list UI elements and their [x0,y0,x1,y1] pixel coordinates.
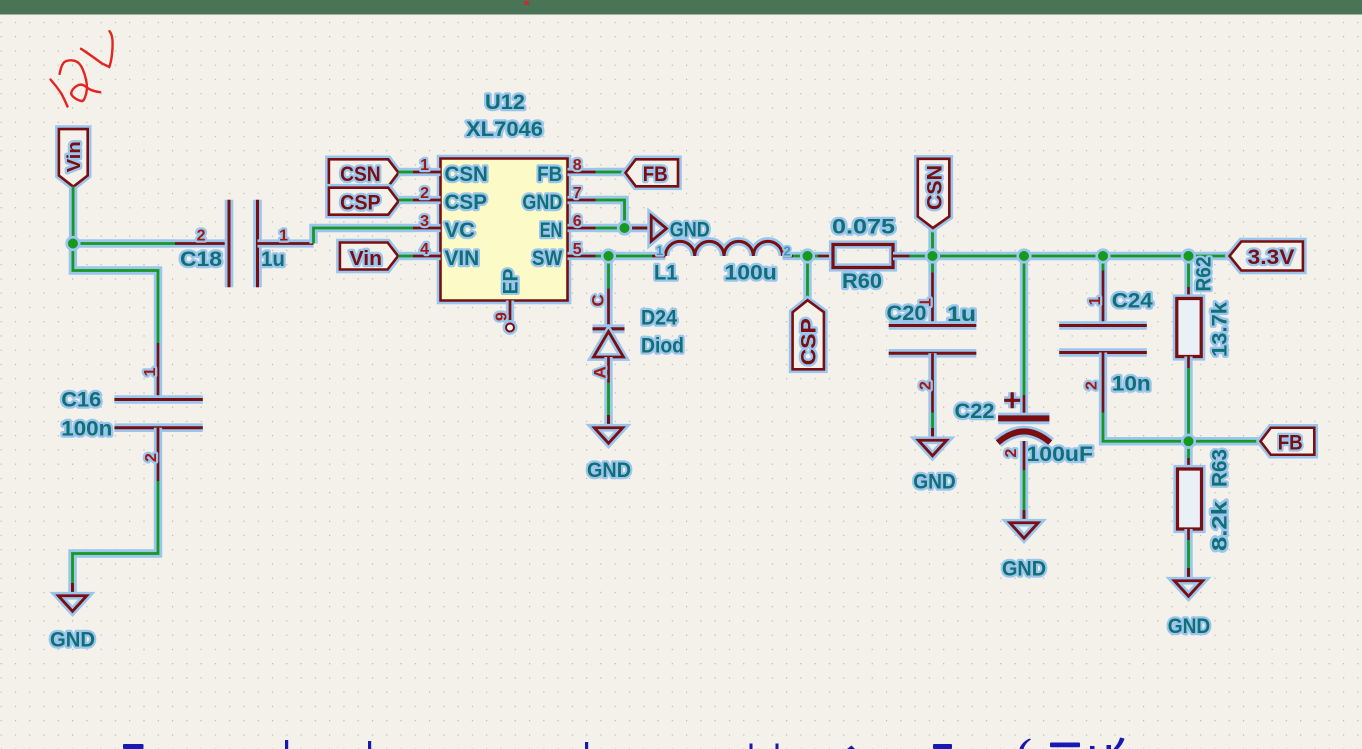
svg-text:CSP: CSP [340,190,381,214]
svg-text:4: 4 [420,241,429,258]
svg-text:FB: FB [1278,431,1303,455]
svg-text:GND: GND [913,470,956,494]
svg-text:FB: FB [537,162,562,186]
svg-text:SW: SW [532,246,563,270]
svg-text:U12: U12 [485,90,525,114]
svg-text:2: 2 [420,185,429,202]
svg-text:EP: EP [499,269,523,295]
svg-text:XL7046: XL7046 [466,117,543,141]
svg-text:3.3V: 3.3V [1248,245,1296,269]
svg-text:2: 2 [918,381,935,390]
svg-text:2: 2 [1003,449,1020,458]
svg-text:R62: R62 [1192,256,1216,291]
svg-text:2: 2 [197,227,206,244]
svg-text:10n: 10n [1112,372,1151,396]
svg-text:7: 7 [573,185,582,202]
svg-text:8: 8 [573,157,582,174]
svg-text:C: C [589,294,608,306]
svg-text:100uF: 100uF [1027,442,1094,466]
svg-text:A: A [591,366,610,378]
svg-text:R63: R63 [1207,449,1231,487]
svg-text:1u: 1u [947,302,976,326]
svg-text:13.7k: 13.7k [1207,302,1231,357]
svg-text:C20: C20 [887,301,927,325]
svg-text:VIN: VIN [445,246,480,270]
svg-text:C22: C22 [955,399,995,423]
svg-text:100u: 100u [724,261,777,285]
svg-text:GND: GND [587,458,631,482]
svg-text:3: 3 [420,213,429,230]
svg-text:C24: C24 [1112,289,1153,313]
svg-text:GND: GND [1002,557,1046,581]
svg-text:FB: FB [643,162,668,186]
svg-text:2: 2 [1084,381,1101,390]
svg-text:R60: R60 [842,269,882,293]
svg-text:GND: GND [522,190,562,214]
svg-text:8.2k: 8.2k [1207,501,1231,551]
svg-text:GND: GND [50,628,95,652]
svg-text:1: 1 [1087,297,1104,306]
svg-text:1: 1 [656,243,663,258]
svg-text:2: 2 [143,453,160,462]
svg-text:CSP: CSP [796,318,820,365]
svg-text:VC: VC [445,218,475,242]
svg-text:L1: L1 [654,261,678,285]
svg-text:EN: EN [540,218,563,242]
svg-text:9: 9 [494,312,511,321]
svg-text:Vin: Vin [350,248,383,270]
svg-text:5: 5 [573,241,582,258]
svg-text:CSN: CSN [340,162,381,186]
svg-text:Vin: Vin [63,141,84,172]
svg-text:6: 6 [573,213,582,230]
svg-text:Diod: Diod [641,334,684,358]
svg-text:0.075: 0.075 [832,215,895,239]
svg-text:100n: 100n [61,417,112,441]
svg-text:C16: C16 [61,388,101,412]
svg-text:D24: D24 [641,306,677,330]
svg-text:1: 1 [279,227,288,244]
svg-text:C18: C18 [180,247,222,271]
svg-text:GND: GND [1168,614,1211,638]
svg-text:1u: 1u [261,247,285,271]
svg-text:1: 1 [420,157,429,174]
svg-text:1: 1 [142,368,159,377]
svg-text:CSN: CSN [923,165,947,210]
svg-text:CSP: CSP [445,190,488,214]
svg-text:CSN: CSN [445,162,488,186]
svg-text:2: 2 [784,244,791,259]
